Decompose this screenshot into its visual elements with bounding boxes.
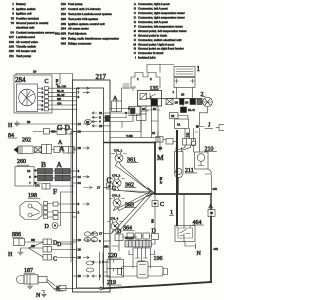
svg-text:BL-R: BL-R bbox=[188, 108, 196, 112]
svg-text:Connector, right suspension to: Connector, right suspension tower bbox=[138, 16, 185, 20]
svg-text:219: 219 bbox=[61, 12, 66, 16]
svg-text:211: 211 bbox=[9, 54, 14, 58]
svg-text:F: F bbox=[53, 187, 57, 196]
svg-text:N: N bbox=[36, 293, 41, 299]
svg-text:Ignition system control unit: Ignition system control unit bbox=[68, 22, 105, 26]
air mass meter 284 bbox=[14, 75, 52, 113]
svg-text:Ground point in trunk: Ground point in trunk bbox=[138, 33, 167, 37]
svg-text:Connector in trunk: Connector in trunk bbox=[138, 51, 164, 55]
svg-text:Ground panel in central: Ground panel in central bbox=[16, 21, 48, 25]
fuse and lead below strip bbox=[170, 105, 196, 129]
svg-text:Test point CIS-system: Test point CIS-system bbox=[68, 17, 99, 21]
wire tangle left of relay bbox=[105, 86, 148, 128]
svg-text:Connector, right suspension to: Connector, right suspension tower bbox=[138, 11, 185, 15]
ground point N (left) bbox=[36, 280, 60, 300]
connector A label (left mid) bbox=[58, 140, 63, 146]
isolated joint J bbox=[195, 107, 212, 135]
svg-text:Connector, switch electrical u: Connector, switch electrical unit bbox=[138, 38, 181, 42]
legend parts list column 2 bbox=[55, 2, 120, 46]
pin 31 boxes below fuse bbox=[152, 131, 177, 144]
svg-text:8: 8 bbox=[78, 95, 80, 99]
svg-text:Air control valve: Air control valve bbox=[16, 40, 38, 44]
svg-text:31: 31 bbox=[177, 123, 181, 127]
svg-text:G: G bbox=[134, 29, 137, 33]
svg-text:30: 30 bbox=[185, 101, 189, 105]
svg-text:Lambda-sond: Lambda-sond bbox=[16, 35, 35, 39]
svg-text:Positive terminal: Positive terminal bbox=[16, 16, 39, 20]
svg-text:GR: GR bbox=[213, 187, 218, 191]
left parallel vertical wire bbox=[70, 131, 72, 262]
svg-text:10: 10 bbox=[78, 238, 82, 242]
svg-text:1: 1 bbox=[12, 2, 14, 6]
svg-text:15: 15 bbox=[171, 114, 175, 118]
bridge ellipses inside control unit bbox=[84, 232, 97, 272]
svg-text:220: 220 bbox=[9, 49, 14, 53]
svg-text:1: 1 bbox=[170, 210, 173, 216]
svg-text:Isolated joint: Isolated joint bbox=[138, 56, 156, 60]
injector 363 (CYL 3) bbox=[112, 194, 136, 211]
svg-text:30: 30 bbox=[142, 107, 146, 111]
in-line fuses row y=131 bbox=[33, 129, 75, 135]
mini connector row above strip bbox=[127, 233, 152, 241]
svg-text:OR: OR bbox=[35, 184, 40, 188]
svg-text:15: 15 bbox=[175, 101, 179, 105]
supply wire from 284 top to control unit bbox=[16, 70, 73, 86]
svg-text:31: 31 bbox=[152, 131, 156, 135]
svg-text:Tank pump: Tank pump bbox=[16, 54, 31, 58]
svg-text:Ground point / right A-post: Ground point / right A-post bbox=[138, 42, 174, 46]
svg-text:J: J bbox=[208, 123, 211, 129]
svg-text:3: 3 bbox=[12, 12, 14, 16]
connector D (bottom middle-right) bbox=[145, 229, 159, 245]
connector C (mid right small) bbox=[152, 194, 164, 208]
svg-text:C: C bbox=[53, 257, 57, 263]
thick wire down to relay 464 bbox=[170, 131, 185, 228]
svg-text:34: 34 bbox=[78, 181, 82, 185]
svg-text:260: 260 bbox=[17, 159, 26, 165]
thick bus to connector A (right) bbox=[155, 187, 218, 210]
feed wires to pumps bbox=[159, 129, 200, 185]
joint circle on pump feed bbox=[191, 129, 196, 153]
air control valve 196 bbox=[129, 248, 163, 268]
battery 1 bbox=[174, 65, 201, 77]
svg-text:SB: SB bbox=[31, 238, 35, 242]
ground point N (right) bbox=[185, 242, 219, 258]
connector F bbox=[35, 184, 74, 197]
battery terminal box bbox=[173, 78, 196, 99]
circled pin 20 inside control unit bbox=[85, 119, 92, 124]
wire C down to D box bbox=[151, 207, 156, 234]
injector 364 (CYL 4) bbox=[110, 217, 134, 234]
svg-text:7: 7 bbox=[29, 181, 31, 185]
svg-text:N: N bbox=[134, 47, 136, 51]
svg-text:248: 248 bbox=[61, 22, 66, 26]
test point 230 bracket bbox=[123, 73, 160, 89]
svg-text:SB: SB bbox=[151, 219, 155, 223]
svg-text:D: D bbox=[57, 242, 62, 248]
G D ground designators bbox=[57, 123, 71, 132]
control unit 217 outer box bbox=[73, 73, 111, 292]
lambda-sond 84 / temp sensor 202 bbox=[8, 133, 42, 154]
svg-text:2: 2 bbox=[201, 92, 204, 98]
injector 361 (CYL 1) bbox=[114, 149, 138, 166]
svg-text:Connector, right A-post: Connector, right A-post bbox=[138, 2, 170, 6]
control unit left pins and arrows bbox=[73, 86, 89, 278]
svg-text:284: 284 bbox=[15, 76, 26, 84]
svg-text:284: 284 bbox=[61, 27, 66, 31]
svg-text:Bridge connector: Bridge connector bbox=[68, 42, 91, 46]
svg-text:Ground point on right front fe: Ground point on right front fender bbox=[138, 47, 184, 51]
pin 31 and ground arrow M bbox=[157, 138, 164, 163]
wires injector 362 to bundle bbox=[114, 191, 153, 194]
suppression relay 464 bbox=[175, 220, 204, 242]
svg-text:Y-SB: Y-SB bbox=[126, 134, 133, 138]
fuel pump 210 bbox=[195, 147, 217, 175]
svg-text:CYL 2: CYL 2 bbox=[112, 174, 121, 178]
connector A (right, square) bbox=[208, 204, 215, 217]
svg-text:I: I bbox=[135, 56, 136, 60]
svg-text:2: 2 bbox=[12, 7, 14, 11]
connector D label (left low) bbox=[57, 242, 73, 248]
svg-text:BL-R: BL-R bbox=[159, 177, 163, 185]
wires injector 363 to bundle bbox=[114, 192, 153, 211]
svg-text:Control unit LH-Jetronic: Control unit LH-Jetronic bbox=[68, 7, 101, 11]
tank pump 211 bbox=[175, 148, 198, 178]
svg-text:CYL 3: CYL 3 bbox=[112, 194, 121, 198]
svg-text:9: 9 bbox=[99, 239, 101, 243]
svg-text:Air mass meter: Air mass meter bbox=[68, 27, 89, 31]
svg-text:2: 2 bbox=[78, 211, 80, 215]
svg-text:GR-W: GR-W bbox=[125, 236, 133, 240]
speed signal arrow pin 17 bbox=[84, 186, 116, 193]
svg-text:M: M bbox=[133, 42, 136, 46]
svg-text:29: 29 bbox=[181, 93, 185, 97]
svg-text:196: 196 bbox=[9, 40, 14, 44]
control unit right pins bbox=[92, 111, 110, 278]
svg-text:B: B bbox=[41, 160, 46, 169]
svg-text:SB: SB bbox=[31, 244, 35, 248]
svg-text:107: 107 bbox=[9, 35, 14, 39]
svg-text:10: 10 bbox=[33, 70, 37, 74]
svg-text:G: G bbox=[57, 123, 63, 132]
bridge connector 886 bbox=[12, 232, 29, 246]
svg-text:Throttle switch: Throttle switch bbox=[16, 45, 36, 49]
svg-text:196: 196 bbox=[154, 256, 163, 262]
svg-text:76: 76 bbox=[11, 21, 15, 25]
svg-text:Fuel injectors: Fuel injectors bbox=[68, 32, 87, 36]
svg-text:Ignition switch: Ignition switch bbox=[16, 7, 36, 11]
svg-text:H: H bbox=[8, 123, 13, 129]
svg-text:26: 26 bbox=[99, 124, 103, 128]
svg-text:Connector, left A-post: Connector, left A-post bbox=[138, 20, 168, 24]
svg-text:GR: GR bbox=[214, 247, 219, 251]
svg-text:5: 5 bbox=[78, 202, 80, 206]
injector 362 (CYL 2) bbox=[112, 174, 136, 191]
svg-text:25: 25 bbox=[78, 256, 82, 260]
svg-text:GR: GR bbox=[104, 245, 109, 249]
svg-text:3: 3 bbox=[78, 169, 80, 173]
svg-text:electrical unit: electrical unit bbox=[16, 26, 34, 30]
connector E box (right mid) bbox=[183, 133, 196, 145]
svg-text:1: 1 bbox=[197, 65, 201, 73]
svg-text:24: 24 bbox=[78, 175, 82, 179]
ignition switch 2 bbox=[201, 92, 213, 107]
thick bundle wire horizontal bbox=[104, 142, 156, 144]
svg-text:K: K bbox=[134, 38, 137, 42]
connector K and bottom bus start bbox=[55, 286, 66, 293]
svg-text:14: 14 bbox=[78, 122, 82, 126]
test point 260 bbox=[15, 159, 41, 186]
svg-text:17: 17 bbox=[99, 232, 103, 236]
ground point H (lower left) bbox=[8, 248, 29, 258]
svg-text:D: D bbox=[134, 16, 137, 20]
svg-text:F: F bbox=[134, 24, 136, 28]
svg-text:87: 87 bbox=[153, 107, 157, 111]
wires below relay 135 bbox=[73, 110, 160, 132]
svg-text:Connector, left A-post: Connector, left A-post bbox=[138, 7, 168, 11]
isolated joint D (circle) bbox=[45, 192, 74, 230]
connector A (row y=148) bbox=[42, 144, 78, 154]
svg-text:A: A bbox=[58, 140, 63, 146]
svg-text:54: 54 bbox=[11, 30, 15, 34]
svg-text:C: C bbox=[45, 79, 49, 85]
svg-text:18: 18 bbox=[78, 146, 82, 150]
svg-text:Relay, radio interference supp: Relay, radio interference suppression bbox=[68, 37, 119, 41]
wire A down to bottom bus bbox=[210, 217, 212, 283]
thick bundle vertical to injector junction bbox=[154, 143, 156, 195]
svg-text:BL-Y: BL-Y bbox=[55, 79, 59, 86]
valve body plate below 196 bbox=[118, 262, 168, 279]
svg-text:19: 19 bbox=[78, 248, 82, 252]
lambda-sond sensor 187 bbox=[17, 268, 48, 289]
svg-text:Connector, left suspension tow: Connector, left suspension tower bbox=[138, 24, 183, 28]
svg-text:N: N bbox=[197, 251, 202, 257]
svg-text:D: D bbox=[65, 123, 71, 132]
wires 886/H to connectors D and C bbox=[29, 238, 74, 263]
svg-text:1: 1 bbox=[137, 77, 139, 81]
svg-text:361-365: 361-365 bbox=[55, 32, 67, 36]
injector bundle junction bbox=[148, 188, 155, 196]
svg-text:6: 6 bbox=[29, 175, 31, 179]
svg-text:H: H bbox=[134, 33, 136, 37]
wires injector 361 to bundle bbox=[116, 166, 153, 194]
thick feed wire Y-SB bbox=[110, 134, 160, 138]
bottom connector O and bus to right bbox=[55, 282, 211, 290]
throttle switch 198 bbox=[20, 193, 74, 220]
svg-text:50: 50 bbox=[27, 120, 31, 124]
small box at right edge bbox=[216, 125, 225, 131]
svg-text:E: E bbox=[134, 20, 136, 24]
control unit inner box bbox=[77, 88, 104, 288]
wire battery to 230 bbox=[147, 65, 174, 73]
svg-text:B: B bbox=[134, 7, 136, 11]
svg-text:135: 135 bbox=[150, 86, 159, 92]
multi-pin connector strip (hatched) bbox=[125, 241, 152, 248]
svg-text:A: A bbox=[209, 204, 214, 210]
CS heater 220 / test point 219 bbox=[100, 252, 124, 286]
svg-text:1: 1 bbox=[173, 90, 175, 94]
svg-text:Ground point, left suspension: Ground point, left suspension tower bbox=[138, 29, 187, 33]
svg-text:Ignition coil: Ignition coil bbox=[16, 12, 32, 16]
connector C (left of injectors) bbox=[107, 176, 113, 190]
svg-text:137: 137 bbox=[61, 7, 66, 11]
svg-text:M: M bbox=[157, 153, 164, 162]
svg-text:886: 886 bbox=[61, 42, 66, 46]
svg-text:17: 17 bbox=[97, 186, 101, 190]
svg-text:2: 2 bbox=[150, 77, 152, 81]
svg-text:75: 75 bbox=[11, 16, 15, 20]
wires 284 to control unit with labels bbox=[48, 85, 73, 110]
svg-text:20: 20 bbox=[78, 274, 82, 278]
legend parts list column 1 bbox=[9, 2, 55, 58]
pump ground wires to thick bus bbox=[179, 175, 212, 194]
svg-text:O: O bbox=[134, 51, 137, 55]
connectors B and A (double row grid) bbox=[38, 160, 75, 181]
svg-text:D: D bbox=[45, 224, 50, 230]
svg-text:210: 210 bbox=[61, 2, 66, 6]
legend parts list column 3 bbox=[133, 2, 186, 59]
svg-text:A: A bbox=[57, 160, 63, 169]
svg-text:CYL 1: CYL 1 bbox=[114, 149, 123, 153]
svg-text:CS heater unit: CS heater unit bbox=[16, 49, 36, 53]
terminal strip 30/15 bbox=[146, 99, 202, 106]
connector D (bottom, left of 196) bbox=[104, 229, 137, 251]
connector C on 284 bbox=[38, 79, 49, 112]
svg-text:202: 202 bbox=[22, 138, 31, 144]
ground point H (upper left) bbox=[8, 120, 73, 129]
svg-text:C: C bbox=[160, 202, 164, 208]
svg-text:20: 20 bbox=[86, 120, 90, 124]
svg-text:464: 464 bbox=[61, 37, 66, 41]
svg-text:A: A bbox=[134, 2, 137, 6]
svg-text:6: 6 bbox=[42, 108, 44, 112]
svg-text:Test point Lambda-sond system: Test point Lambda-sond system bbox=[68, 12, 112, 16]
fuel system relay 135 bbox=[138, 86, 162, 143]
svg-text:H: H bbox=[8, 252, 13, 258]
svg-text:13: 13 bbox=[27, 169, 31, 173]
svg-text:198: 198 bbox=[9, 45, 14, 49]
svg-text:Coolant temperature sensor: Coolant temperature sensor bbox=[16, 30, 54, 34]
wires injector 364 to bundle bbox=[112, 192, 153, 234]
svg-text:Fuel pump: Fuel pump bbox=[68, 2, 83, 6]
svg-text:CYL 4: CYL 4 bbox=[110, 217, 119, 221]
svg-text:C: C bbox=[134, 11, 137, 15]
svg-text:220: 220 bbox=[61, 17, 66, 21]
svg-text:Battery: Battery bbox=[16, 2, 26, 6]
